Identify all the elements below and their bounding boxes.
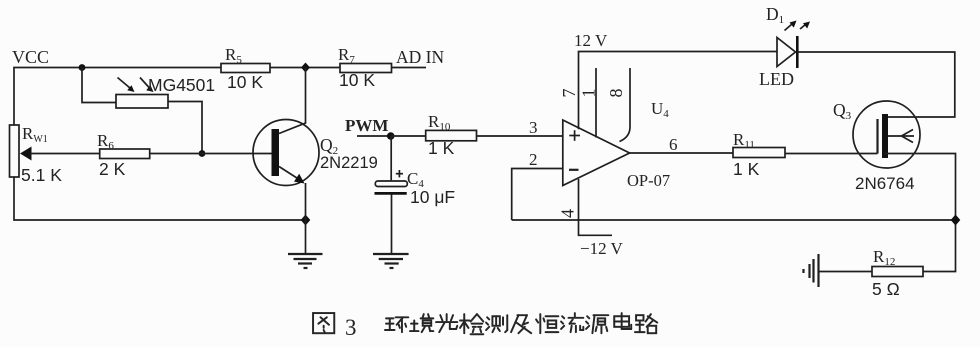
resistor R11 body	[733, 148, 785, 158]
transistor Q3 gate line	[876, 119, 878, 154]
svg-text:LED: LED	[759, 69, 794, 89]
svg-text:OP-07: OP-07	[627, 171, 670, 190]
svg-text:3: 3	[529, 118, 538, 137]
wire MG4501 left feed	[82, 68, 116, 103]
transistor Q3 channel bar	[882, 114, 888, 158]
wire emitter down to ground	[305, 183, 307, 254]
svg-text:2 K: 2 K	[99, 159, 126, 179]
junction node collector top	[301, 63, 310, 73]
svg-text:5 Ω: 5 Ω	[872, 279, 900, 299]
junction dot B	[199, 150, 206, 157]
svg-text:U4: U4	[651, 99, 669, 120]
LED emission arrow 2	[800, 22, 810, 30]
op-amp minus input mark	[569, 169, 579, 171]
wire pin7 supply	[579, 52, 778, 130]
resistor R7 body	[340, 64, 392, 73]
wire PWM stub	[357, 135, 391, 137]
transistor Q3 circle	[853, 101, 920, 168]
wire Q3 source down	[884, 154, 956, 272]
svg-text:7: 7	[559, 89, 579, 98]
potentiometer RW1 body	[10, 125, 20, 177]
svg-text:−12 V: −12 V	[580, 239, 624, 258]
svg-text:1 K: 1 K	[428, 138, 455, 158]
pin 8 stub	[620, 68, 631, 142]
svg-text:VCC: VCC	[12, 47, 49, 67]
caption char yuan	[586, 315, 608, 333]
svg-text:10 μF: 10 μF	[410, 187, 455, 207]
resistor R12 body	[872, 267, 923, 277]
svg-text:R11: R11	[733, 130, 755, 151]
wire R5 to node	[270, 67, 340, 69]
capacitor C4 bottom plate	[375, 192, 407, 195]
svg-text:12 V: 12 V	[574, 31, 608, 50]
caption char huan	[385, 317, 408, 332]
op-amp U4 triangle	[563, 120, 630, 186]
wire LED cathode to drain	[797, 52, 955, 117]
capacitor C4 top plate	[375, 181, 407, 187]
svg-text:R10: R10	[428, 112, 451, 133]
caption char dian	[614, 313, 631, 329]
transistor Q2 collector	[279, 68, 306, 134]
svg-text:2N6764: 2N6764	[855, 174, 915, 193]
pin 1 stub	[595, 68, 597, 138]
svg-text:6: 6	[669, 135, 678, 154]
junction dot PWM	[387, 132, 395, 140]
svg-text:8: 8	[606, 89, 626, 98]
ground Q2	[288, 254, 323, 268]
transistor Q2 circle	[253, 120, 319, 186]
light arrow 1	[118, 78, 135, 93]
wire R12 to ground	[819, 271, 873, 273]
wire MG4501 to node B	[168, 102, 202, 154]
wire PWM to C4	[390, 136, 392, 181]
svg-text:PWM: PWM	[345, 116, 388, 135]
svg-text:10 K: 10 K	[339, 70, 375, 90]
resistor R6 body	[100, 149, 150, 159]
svg-text:D1: D1	[766, 4, 784, 26]
wire pin2 feedback left	[512, 169, 563, 221]
ground R12 sideways	[804, 254, 819, 287]
svg-text:2N2219: 2N2219	[320, 154, 378, 172]
caption char jing	[410, 314, 433, 332]
caption char lu	[635, 314, 657, 333]
svg-text:3: 3	[345, 315, 357, 340]
wire pin6 output	[630, 152, 733, 154]
svg-text:RW1: RW1	[22, 124, 48, 145]
svg-text:1: 1	[579, 89, 599, 98]
caption char ji	[511, 315, 531, 333]
svg-text:5.1 K: 5.1 K	[21, 165, 62, 185]
wire R11 to Q3 gate	[785, 153, 878, 155]
op-amp plus input mark	[569, 130, 580, 141]
light arrow 2	[140, 78, 154, 93]
junction node source feedback	[951, 215, 961, 226]
caption char guang	[436, 314, 457, 332]
svg-text:R12: R12	[873, 247, 895, 268]
wire R7 to AD IN	[392, 67, 427, 69]
svg-text:R6: R6	[97, 131, 114, 152]
svg-text:MG4501: MG4501	[148, 75, 215, 95]
svg-text:AD IN: AD IN	[396, 47, 444, 67]
wire RW1 bottom to emitter node	[14, 177, 306, 220]
transistor Q2 base bar	[272, 129, 280, 176]
svg-text:R7: R7	[338, 45, 355, 66]
wire pin4 negative supply	[579, 179, 613, 235]
wire wiper to R6	[30, 153, 100, 155]
resistor R10 body	[426, 130, 477, 140]
ground C4	[373, 254, 409, 268]
capacitor C4 plus sign	[396, 170, 403, 177]
diode D1 cathode bar	[796, 36, 799, 68]
junction dot A	[79, 64, 86, 71]
wire C4 to ground	[391, 195, 393, 255]
caption char heng	[536, 314, 558, 333]
wire feedback bottom rail	[512, 219, 956, 221]
caption figure 3 chinese	[313, 313, 657, 340]
svg-text:2: 2	[529, 150, 538, 169]
svg-text:4: 4	[558, 209, 578, 218]
resistor R5 body	[221, 64, 270, 73]
wire top rail VCC	[14, 68, 221, 126]
transistor Q2 emitter	[279, 167, 305, 184]
svg-text:1 K: 1 K	[733, 159, 760, 179]
transistor Q3 body arrow	[888, 130, 914, 143]
wiper arrow RW1	[20, 147, 32, 161]
photoresistor MG4501 body	[116, 95, 168, 109]
wire R10 to op-amp pin3	[477, 135, 563, 137]
svg-text:R5: R5	[225, 45, 242, 66]
caption char liu	[561, 313, 583, 332]
LED emission arrow 1	[785, 21, 797, 31]
wire R6 to Q2 base	[150, 153, 272, 155]
caption char jian	[460, 314, 483, 334]
junction node emitter bottom	[301, 215, 311, 226]
wire PWM to R10	[391, 135, 426, 137]
svg-text:Q3: Q3	[833, 100, 852, 122]
diode D1 triangle	[777, 38, 796, 67]
svg-text:10 K: 10 K	[227, 72, 263, 92]
caption char tu	[313, 313, 334, 333]
caption char ce	[486, 315, 507, 332]
